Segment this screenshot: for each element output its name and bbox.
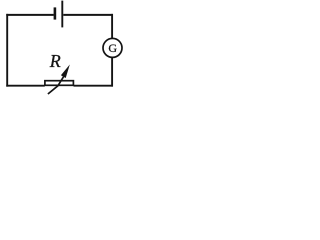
svg-text:R: R: [49, 51, 61, 71]
rheostat R: slider arrow shaft: [48, 76, 64, 94]
rheostat R: slider arrowhead: [61, 65, 70, 79]
wire right vertical upper (top corner to galvanometer): [111, 14, 113, 39]
wire top-left horizontal (left corner to battery): [6, 14, 53, 16]
wire bottom-right horizontal (right corner to rheostat): [74, 85, 114, 87]
rheostat R: body box: [45, 81, 74, 86]
battery cell: short thick plate (negative): [54, 7, 57, 19]
wire right vertical lower (galvanometer to bottom corner): [111, 57, 113, 86]
battery cell: long thin plate (positive): [61, 1, 63, 28]
galvanometer G: circle body: [103, 38, 122, 57]
wire left vertical: [6, 14, 8, 87]
wire bottom-left horizontal (left corner to rheostat): [6, 85, 45, 87]
wire top-right horizontal (battery to right corner): [63, 14, 113, 16]
svg-text:G: G: [108, 41, 117, 55]
